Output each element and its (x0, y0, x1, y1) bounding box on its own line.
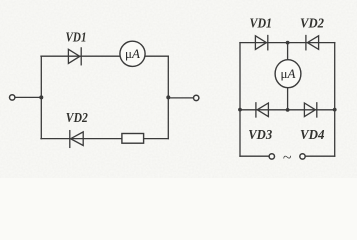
svg-text:VD1: VD1 (250, 17, 273, 32)
node A junction dot (left circuit) (39, 95, 43, 99)
terminal right (left circuit) (194, 95, 199, 100)
svg-text:VD4: VD4 (300, 128, 325, 143)
terminal left (left circuit) (10, 95, 15, 100)
node B junction dot (left circuit) (166, 95, 170, 99)
node middle center junction dot (right circuit) (286, 108, 290, 112)
wire center branch lower (right circuit) (287, 88, 289, 110)
terminal bottom left (right circuit) (269, 154, 274, 159)
node middle left junction dot (right circuit) (238, 108, 242, 112)
node top center junction dot (right circuit) (286, 41, 290, 45)
wire top branch (left circuit) (41, 55, 168, 57)
diode VD2 (left circuit) (70, 131, 83, 148)
wire bottom left (right circuit) (240, 155, 269, 157)
svg-text:VD2: VD2 (300, 17, 324, 32)
wire right vertical side (right circuit) (334, 43, 336, 157)
terminal bottom right (right circuit) (300, 154, 305, 159)
wire left vertical side (right circuit) (239, 43, 241, 157)
wire left vertical side (left circuit) (40, 56, 42, 138)
diode VD4 (right circuit) (304, 103, 316, 117)
svg-text:μA: μA (125, 46, 140, 61)
svg-text:~: ~ (283, 149, 292, 166)
wire node B to right terminal (left circuit) (168, 97, 193, 99)
wire top side (right circuit) (240, 42, 335, 44)
wire middle rail (right circuit) (240, 109, 335, 111)
wire left terminal to node A (left circuit) (15, 96, 41, 98)
microammeter PA1 (left circuit) (120, 41, 145, 66)
wire bottom right (right circuit) (305, 155, 335, 157)
svg-text:μA: μA (281, 66, 296, 81)
wire bottom branch (left circuit) (41, 138, 168, 140)
svg-text:VD1: VD1 (66, 30, 87, 45)
diode VD3 (right circuit) (256, 103, 269, 117)
microammeter PA2 (right circuit) (275, 60, 301, 88)
svg-text:VD3: VD3 (248, 128, 272, 143)
wire center branch upper (right circuit) (287, 43, 289, 61)
node middle right junction dot (right circuit) (333, 108, 337, 112)
diode VD1 (right circuit) (255, 36, 267, 50)
resistor R (left circuit) (122, 134, 144, 144)
svg-text:VD2: VD2 (66, 111, 88, 126)
diode VD1 (left circuit) (68, 48, 81, 65)
diode VD2 (right circuit) (306, 36, 319, 50)
wire right vertical side (left circuit) (167, 56, 169, 138)
